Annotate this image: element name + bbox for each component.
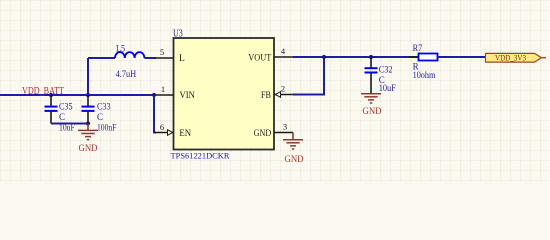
svg-text:GND: GND [254,129,272,139]
svg-text:U3: U3 [173,29,183,40]
svg-text:TPS61221DCKR: TPS61221DCKR [171,150,230,160]
port VDD_3V3 [486,53,547,63]
resistor R7 [409,54,447,61]
svg-text:GND: GND [285,155,304,165]
junction C32 [369,55,373,59]
svg-text:VDD_3V3: VDD_3V3 [495,53,526,63]
svg-text:C: C [97,112,103,122]
svg-text:GND: GND [363,107,382,117]
svg-text:GND: GND [79,144,98,154]
svg-text:C32: C32 [379,64,393,74]
pin 3 (GND) of U3 [254,122,293,139]
pin 1 (VIN) of U3 [155,84,195,101]
junction FB loop [322,55,326,59]
svg-text:VIN: VIN [180,91,195,101]
svg-text:R7: R7 [413,43,423,53]
svg-text:10uF: 10uF [379,83,396,93]
pin 6 (EN) of U3 with input arrow [155,122,192,139]
svg-text:5: 5 [160,47,164,57]
svg-text:L: L [179,54,185,64]
svg-text:C: C [59,112,65,122]
ground GND (U3 pin 3) [283,133,304,165]
svg-text:100nF: 100nF [97,122,116,132]
pin 5 (L) of U3 [155,47,186,64]
ground GND (input caps) [78,124,98,154]
inductor L5 [115,52,144,58]
wire FB feedback loop [293,57,324,95]
wire VOUT rail [293,56,419,58]
pin 2 (FB) of U3 with input arrow [261,84,293,102]
wire R7 to port [438,56,487,58]
wire L5 to pin 5 [144,57,156,59]
svg-text:10ohm: 10ohm [413,70,436,80]
svg-text:1: 1 [161,84,165,94]
svg-text:C35: C35 [59,102,73,112]
capacitor C35 [45,95,58,124]
svg-text:FB: FB [261,91,271,101]
svg-text:VOUT: VOUT [248,54,271,64]
svg-text:10uF: 10uF [59,122,75,132]
wire cap ground rail [51,123,88,125]
junction at ground stem [86,121,90,125]
svg-text:EN: EN [179,129,191,139]
ground GND (C32) [361,94,382,117]
svg-text:L5: L5 [116,44,125,54]
wire to L5 [88,57,115,59]
svg-text:VDD_BATT: VDD_BATT [22,86,64,97]
svg-text:4.7uH: 4.7uH [116,69,137,79]
wire L5 branch vertical [87,58,89,95]
capacitor C32 [365,57,378,93]
wire EN branch [154,95,156,133]
junction at C35 [49,93,53,97]
junction at VIN / EN branch [152,93,156,97]
junction at C33 / L5 branch [86,93,90,97]
IC U3 body [174,38,275,150]
capacitor C33 [82,95,95,124]
svg-text:6: 6 [160,122,164,132]
svg-text:2: 2 [281,84,285,94]
svg-text:3: 3 [283,122,287,132]
wire VDD_BATT rail [0,94,155,96]
svg-text:C33: C33 [97,102,111,112]
pin 4 (VOUT) of U3 [248,46,293,64]
